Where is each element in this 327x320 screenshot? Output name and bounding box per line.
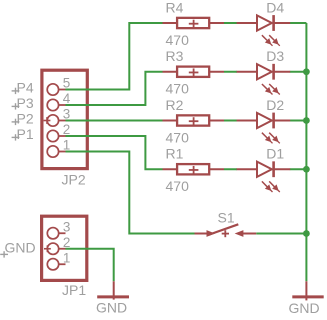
svg-text:4: 4 bbox=[63, 91, 71, 106]
wire D2 cathode to bus bbox=[290, 120, 307, 122]
wire R4 to D4 bbox=[224, 22, 237, 24]
LED D2 light arrows bbox=[262, 133, 280, 144]
net label P4 origin cross bbox=[12, 88, 20, 94]
svg-text:R3: R3 bbox=[166, 48, 184, 64]
connector JP1 body bbox=[42, 216, 87, 280]
wire JP2 pin1 to switch S1 bbox=[66, 152, 195, 234]
svg-text:JP2: JP2 bbox=[62, 172, 86, 188]
connector JP2 pin 2 bbox=[47, 130, 65, 141]
ground symbol (bus, bottom right) bbox=[292, 281, 323, 300]
net label P3 origin cross bbox=[12, 103, 20, 109]
wire R2 to D2 bbox=[224, 120, 237, 122]
resistor R3 bbox=[163, 67, 225, 77]
svg-text:P1: P1 bbox=[17, 126, 34, 142]
junction D2 bbox=[303, 117, 310, 124]
svg-text:P4: P4 bbox=[17, 79, 34, 95]
svg-text:S1: S1 bbox=[218, 210, 235, 226]
svg-text:470: 470 bbox=[166, 32, 190, 48]
JP2 origin cross bbox=[44, 117, 51, 124]
svg-text:5: 5 bbox=[63, 76, 71, 91]
wire net P2: JP2 pin3 to R2 bbox=[66, 120, 163, 122]
wire GND bus vertical bbox=[305, 23, 307, 281]
wire D1 cathode to bus bbox=[290, 168, 307, 170]
svg-text:R2: R2 bbox=[166, 97, 184, 113]
svg-text:R4: R4 bbox=[166, 0, 184, 15]
svg-text:GND: GND bbox=[5, 240, 36, 256]
LED D3 bbox=[237, 64, 291, 80]
wire D3 cathode to bus bbox=[290, 71, 307, 73]
connector JP2 pin 3 bbox=[47, 115, 65, 126]
LED D4 light arrows bbox=[262, 35, 280, 46]
svg-text:3: 3 bbox=[63, 219, 71, 234]
svg-text:470: 470 bbox=[166, 178, 190, 194]
LED D4 bbox=[237, 15, 291, 31]
connector JP2 body bbox=[42, 70, 87, 168]
wire JP1 pin2 to GND bbox=[66, 249, 114, 282]
connector JP2 pin 4 bbox=[47, 99, 65, 110]
connector JP2 pin 5 bbox=[47, 84, 65, 95]
wire net P4: JP2 pin5 to R4 bbox=[66, 23, 163, 90]
svg-text:D4: D4 bbox=[266, 0, 284, 15]
LED D1 bbox=[237, 161, 291, 177]
svg-text:P2: P2 bbox=[17, 110, 34, 126]
net label P1 origin cross bbox=[12, 134, 20, 140]
wire R3 to D3 bbox=[224, 71, 237, 73]
junction D1 bbox=[303, 166, 310, 173]
wire net P3: JP2 pin4 to R3 bbox=[66, 72, 163, 105]
connector JP2 pin 1 bbox=[47, 146, 65, 157]
wire net P1: JP2 pin2 to R1 bbox=[66, 136, 163, 169]
wire D4 cathode to bus bbox=[290, 22, 307, 24]
svg-text:P3: P3 bbox=[17, 95, 34, 111]
resistor R1 bbox=[163, 164, 225, 174]
LED D2 bbox=[237, 113, 291, 129]
svg-text:R1: R1 bbox=[166, 146, 184, 162]
connector JP1 pin 1 bbox=[47, 259, 65, 270]
svg-text:JP1: JP1 bbox=[62, 282, 86, 298]
ground symbol (under JP1) bbox=[97, 281, 129, 299]
svg-text:2: 2 bbox=[63, 235, 71, 250]
LED D1 light arrows bbox=[262, 181, 280, 192]
svg-text:470: 470 bbox=[166, 129, 190, 145]
JP1 origin cross bbox=[44, 245, 51, 252]
svg-text:D1: D1 bbox=[266, 146, 284, 162]
junction S1 net bbox=[303, 230, 310, 237]
resistor R4 bbox=[163, 18, 225, 28]
wire S1 to bus bbox=[256, 233, 306, 235]
switch S1 bbox=[195, 224, 257, 237]
svg-text:GND: GND bbox=[96, 299, 127, 315]
svg-text:1: 1 bbox=[63, 250, 71, 265]
svg-text:D3: D3 bbox=[266, 48, 284, 64]
svg-text:D2: D2 bbox=[266, 97, 284, 113]
svg-text:3: 3 bbox=[63, 107, 71, 122]
junction D3 bbox=[303, 68, 310, 75]
net label P2 origin cross bbox=[12, 119, 20, 125]
connector JP1 pin 3 bbox=[47, 228, 65, 239]
LED D3 light arrows bbox=[262, 84, 280, 95]
svg-text:470: 470 bbox=[166, 81, 190, 97]
wire R1 to D1 bbox=[224, 168, 237, 170]
svg-text:1: 1 bbox=[63, 138, 71, 153]
resistor R2 bbox=[163, 115, 225, 125]
svg-text:2: 2 bbox=[63, 122, 71, 137]
svg-text:GND: GND bbox=[289, 300, 320, 316]
net label GND origin cross bbox=[0, 251, 8, 257]
connector JP1 pin 2 bbox=[47, 243, 65, 254]
